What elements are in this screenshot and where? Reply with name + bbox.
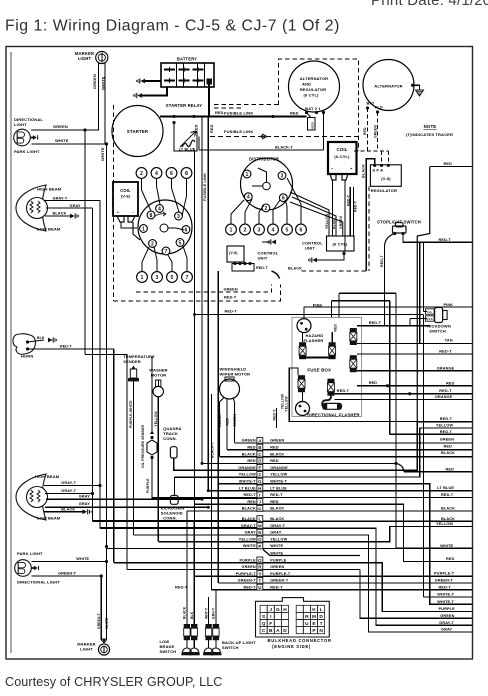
svg-text:LT BLUE: LT BLUE: [179, 148, 196, 152]
svg-text:YELLOW: YELLOW: [325, 213, 329, 229]
svg-text:1: 1: [230, 227, 233, 233]
wire pink from hazard flasher: [304, 307, 473, 319]
svg-text:WHITE: WHITE: [76, 557, 89, 561]
svg-text:RED-T: RED-T: [439, 585, 452, 589]
svg-text:YELLOW: YELLOW: [280, 393, 284, 409]
svg-text:YELLOW: YELLOW: [239, 537, 256, 541]
regulator (V-8): [370, 165, 401, 187]
svg-text:GREEN: GREEN: [224, 288, 238, 292]
wire black-t: [199, 149, 324, 151]
svg-text:RED: RED: [270, 459, 279, 463]
wire row T to border: [360, 582, 473, 584]
wire red-t right mid: [357, 353, 473, 355]
svg-text:T: T: [320, 621, 323, 627]
svg-text:WHITE: WHITE: [100, 76, 105, 90]
svg-text:RED-T: RED-T: [354, 200, 358, 212]
svg-text:PURPLE-WHITE: PURPLE-WHITE: [129, 400, 133, 428]
coil C2 (6-cyl): [328, 142, 357, 174]
wire red-t pair to control unit: [349, 187, 351, 236]
svg-text:N: N: [258, 530, 261, 535]
svg-text:G: G: [258, 479, 262, 484]
wire green jog to row R: [85, 355, 127, 570]
kickdown solenoid conn: [170, 496, 178, 505]
wire gray-t lamp2 b: [45, 493, 93, 495]
control unit V8 terminals: [232, 264, 254, 272]
wire purple-white: [133, 380, 135, 535]
svg-text:3: 3: [177, 214, 180, 220]
wire red relay drop 2: [207, 117, 209, 491]
svg-text:NOTE: NOTE: [424, 124, 437, 129]
svg-text:6: 6: [282, 196, 285, 202]
wire red to kickdown: [410, 318, 427, 320]
wire black hook: [272, 271, 280, 279]
wire row E jog up orange: [360, 422, 417, 470]
svg-text:GREEN: GREEN: [440, 438, 454, 442]
spark plug terminals bottom (V-8): [137, 272, 148, 283]
svg-text:YELLOW: YELLOW: [285, 396, 289, 412]
wire drop x389: [389, 301, 391, 435]
svg-text:GRAY: GRAY: [79, 502, 91, 506]
wire row Q jog purple: [360, 563, 473, 612]
svg-text:6: 6: [300, 227, 303, 233]
wire gray lamp2 a: [46, 498, 202, 500]
wire row I to border: [360, 496, 473, 498]
svg-text:RED-T: RED-T: [272, 409, 276, 421]
svg-text:GRAY: GRAY: [270, 531, 282, 535]
svg-text:7: 7: [186, 275, 189, 281]
svg-text:PARK LIGHT: PARK LIGHT: [14, 149, 40, 154]
dashed box bottom right: [302, 270, 369, 272]
wire oil sender up: [151, 357, 153, 434]
wire white second: [263, 550, 360, 556]
svg-text:WHITE: WHITE: [440, 544, 453, 548]
wire yellow washer: [157, 397, 159, 542]
svg-text:(6-CYL): (6-CYL): [334, 154, 350, 159]
fuse F3: [350, 328, 357, 345]
wire red-t from fuse3 top: [357, 325, 430, 327]
svg-text:RED: RED: [226, 417, 230, 425]
svg-text:RED: RED: [210, 124, 214, 133]
hazard flasher: [297, 319, 311, 333]
wire white drop to marker: [106, 562, 108, 641]
svg-text:GRAY-T: GRAY-T: [53, 197, 68, 201]
svg-text:(6 CYL): (6 CYL): [303, 93, 319, 98]
fuse F6: [327, 379, 334, 396]
svg-text:LIGHT: LIGHT: [14, 122, 27, 127]
svg-text:GREEN-T: GREEN-T: [97, 613, 101, 629]
svg-text:RED-T: RED-T: [225, 310, 238, 314]
svg-text:PURPLE: PURPLE: [270, 558, 287, 562]
svg-text:WHT-T: WHT-T: [204, 608, 208, 619]
svg-text:BULKHEAD CONNECTOR: BULKHEAD CONNECTOR: [268, 638, 332, 643]
wire left of fusebox red-t: [276, 408, 278, 428]
svg-text:U: U: [305, 621, 309, 627]
node green junction: [83, 128, 86, 131]
flasher connector bar: [323, 403, 342, 409]
svg-text:Q: Q: [262, 621, 266, 627]
node white junction: [105, 142, 108, 145]
svg-text:YELLOW: YELLOW: [270, 473, 287, 477]
svg-text:GRAY-T: GRAY-T: [270, 524, 285, 528]
wire red with node: [357, 385, 473, 387]
svg-text:LIGHT: LIGHT: [80, 647, 93, 652]
headlamp high/low beam (upper): [16, 185, 48, 231]
svg-text:CONN.: CONN.: [163, 516, 177, 521]
svg-text:DIRECTIONAL FLASHER: DIRECTIONAL FLASHER: [307, 413, 359, 418]
svg-text:HIGH BEAM: HIGH BEAM: [35, 474, 60, 479]
svg-text:GRN-T: GRN-T: [212, 608, 216, 619]
svg-text:RED: RED: [247, 500, 256, 504]
fuse F5: [298, 375, 305, 392]
wire white-t extra: [423, 315, 425, 598]
svg-text:RED-T: RED-T: [380, 255, 384, 267]
svg-text:K: K: [312, 607, 316, 613]
svg-text:REGULATOR: REGULATOR: [300, 87, 326, 92]
wire row B to border: [360, 449, 473, 451]
svg-text:4: 4: [272, 227, 275, 233]
alternator and regulator (6 cyl): [289, 61, 340, 112]
svg-text:D: D: [319, 614, 323, 620]
svg-text:GREEN: GREEN: [242, 439, 256, 443]
svg-text:8: 8: [150, 213, 153, 219]
wire stoplight left red-t: [385, 234, 395, 247]
svg-text:F: F: [269, 621, 272, 627]
svg-text:RED: RED: [426, 317, 433, 321]
svg-text:UNIT: UNIT: [258, 256, 268, 261]
svg-text:BLACK: BLACK: [61, 508, 75, 512]
svg-text:ALTERNATOR: ALTERNATOR: [374, 84, 402, 89]
wire green top right: [339, 292, 396, 294]
svg-text:L: L: [320, 607, 323, 613]
svg-text:4: 4: [247, 195, 250, 201]
svg-text:RED-T: RED-T: [243, 586, 256, 590]
directional light (top left): [14, 129, 38, 146]
wire gray-t lamp2 a: [44, 485, 100, 487]
svg-text:RED-T: RED-T: [439, 238, 452, 242]
alternator ground: [411, 84, 414, 87]
svg-text:Print Date: 4/1/2011: Print Date: 4/1/2011: [371, 0, 488, 9]
svg-text:A: A: [276, 628, 280, 634]
wire row A to border: [360, 442, 473, 444]
svg-text:+: +: [117, 211, 119, 215]
svg-text:LOW BEAM: LOW BEAM: [37, 227, 61, 232]
svg-text:(6 CYL): (6 CYL): [332, 242, 348, 247]
svg-text:−: −: [132, 211, 134, 215]
wire coil V8 to distributor: [121, 222, 137, 228]
distributor V8 cap towers: [156, 205, 164, 213]
svg-text:BATTERY: BATTERY: [177, 57, 197, 62]
distributor (6 cyl): [241, 158, 293, 210]
svg-text:SWITCH: SWITCH: [429, 329, 446, 334]
wire red-t mid long: [195, 314, 424, 316]
svg-text:STARTER RELAY: STARTER RELAY: [166, 103, 202, 108]
svg-text:GREEN-T: GREEN-T: [435, 579, 454, 583]
wire red-t lower: [335, 393, 473, 395]
plug wires 6cyl: [231, 200, 244, 224]
directional flasher: [296, 402, 310, 416]
fuse F2: [329, 342, 336, 359]
svg-text:GRAY: GRAY: [70, 204, 82, 208]
spark plug terminals top (V-8): [136, 168, 147, 179]
wire row H to border: [360, 490, 473, 492]
wire red-t flasher drop: [302, 392, 304, 402]
svg-text:REGULATOR: REGULATOR: [371, 188, 397, 193]
svg-text:PURPLE: PURPLE: [146, 478, 150, 493]
wire green-t park light: [32, 575, 102, 577]
svg-text:BLACK: BLACK: [441, 507, 455, 511]
svg-text:RED-T: RED-T: [346, 194, 350, 206]
wire bat dashed down: [367, 108, 369, 151]
svg-text:1: 1: [141, 275, 144, 281]
svg-text:RED-T: RED-T: [60, 345, 72, 349]
wire kickdown conn to row F: [174, 478, 257, 496]
headlamp high/low beam (lower): [16, 474, 48, 520]
dashed link top pair: [214, 104, 279, 106]
svg-text:E: E: [258, 466, 261, 471]
svg-text:RED-T: RED-T: [369, 321, 382, 325]
svg-text:COIL: COIL: [336, 147, 347, 152]
svg-text:RED-T: RED-T: [243, 493, 256, 497]
svg-text:FUSE BOX: FUSE BOX: [307, 367, 331, 372]
dashed box right: [368, 187, 370, 272]
svg-text:1: 1: [142, 226, 145, 232]
wire branch t1: [423, 242, 425, 311]
svg-text:OIL PRESSURE SENDER: OIL PRESSURE SENDER: [141, 424, 145, 468]
svg-text:BLACK: BLACK: [270, 452, 284, 456]
wire gray vertical: [92, 208, 94, 494]
svg-text:1: 1: [246, 172, 249, 178]
wire branch t2: [419, 242, 421, 343]
svg-text:4: 4: [158, 206, 161, 212]
svg-text:WHITE: WHITE: [270, 551, 283, 555]
wire row U to border: [360, 589, 473, 591]
wire red-t horn: [28, 348, 114, 350]
wire row D jog to red: [360, 462, 396, 464]
wire fld dashed down: [377, 112, 379, 151]
wire row C to border: [360, 456, 473, 458]
svg-text:WHITE: WHITE: [105, 617, 109, 629]
svg-text:BLACK: BLACK: [441, 451, 455, 455]
svg-text:RED: RED: [311, 121, 315, 128]
svg-text:GRAY-T: GRAY-T: [61, 481, 76, 485]
svg-text:RED: RED: [446, 467, 455, 471]
marker light (bottom): [102, 639, 106, 643]
svg-text:WHITE-T: WHITE-T: [437, 600, 454, 604]
wire lamp2 drop to row L: [93, 494, 258, 521]
svg-text:GREEN-T: GREEN-T: [238, 579, 257, 583]
wire red-t stub: [417, 421, 472, 423]
6cyl rotor lead: [258, 168, 267, 182]
svg-text:G: G: [276, 607, 280, 613]
svg-text:PURPLE: PURPLE: [239, 558, 256, 562]
wire row R jog green: [360, 569, 473, 618]
svg-text:RED: RED: [247, 446, 256, 450]
svg-text:B: B: [258, 445, 261, 450]
svg-text:GRAY: GRAY: [79, 495, 91, 499]
fusible link wire (dashed): [210, 136, 359, 138]
wire red-t top right: [332, 300, 390, 302]
wire green from marker light: [31, 63, 99, 130]
svg-text:PARK LIGHT: PARK LIGHT: [17, 551, 43, 556]
horn: [13, 334, 35, 355]
svg-text:RED-T: RED-T: [337, 389, 350, 393]
svg-text:CONN.: CONN.: [163, 436, 177, 441]
svg-text:SENDER: SENDER: [123, 359, 141, 364]
svg-text:PINK: PINK: [313, 303, 323, 307]
svg-text:RED: RED: [194, 124, 198, 133]
wire row J jog down red: [360, 504, 473, 561]
svg-text:O: O: [258, 537, 262, 542]
wires yellow blue green to control unit: [290, 192, 329, 236]
svg-text:RED: RED: [270, 500, 279, 504]
wire red feed top right: [430, 166, 473, 168]
wire green-t drop to marker: [100, 576, 102, 640]
wire row S to border: [360, 575, 473, 577]
wires from wiper motor: [220, 398, 225, 457]
wire green drop: [84, 130, 86, 355]
svg-text:3: 3: [281, 173, 284, 179]
bulkhead connector pin column A-U: [257, 437, 263, 443]
svg-text:6: 6: [170, 171, 173, 177]
wire blk horn ground: [28, 340, 45, 342]
svg-text:RED-T: RED-T: [439, 389, 452, 393]
bulkhead grid right: [296, 605, 303, 612]
dashed box bottom inner: [136, 285, 272, 293]
svg-text:STARTER: STARTER: [127, 129, 149, 134]
svg-text:GREEN: GREEN: [233, 413, 237, 426]
svg-text:ORANGE: ORANGE: [270, 466, 288, 470]
rotor lead: [168, 228, 184, 230]
control unit 6cyl ground: [342, 252, 345, 255]
wire red-t stub 2: [390, 433, 473, 435]
wire drop x396: [395, 293, 397, 548]
svg-text:BLACK: BLACK: [441, 517, 455, 521]
wire white drop: [106, 144, 108, 562]
wire accessory drop 4: [217, 271, 219, 583]
svg-text:(V-8): (V-8): [229, 251, 238, 255]
svg-text:RED-T: RED-T: [440, 417, 453, 421]
fuse box outline: [292, 317, 362, 416]
svg-text:4: 4: [155, 171, 158, 177]
svg-text:R: R: [305, 614, 309, 620]
svg-text:BAT 2 1: BAT 2 1: [305, 106, 321, 111]
svg-text:WHITE: WHITE: [100, 147, 105, 161]
svg-text:MOTOR: MOTOR: [151, 373, 167, 378]
svg-text:RED-T: RED-T: [256, 266, 268, 270]
svg-text:LT BLUE: LT BLUE: [239, 486, 256, 490]
svg-text:BLACK: BLACK: [288, 267, 302, 271]
svg-text:BLACK: BLACK: [361, 164, 365, 178]
svg-text:T: T: [258, 578, 261, 583]
fusible link red (box): [308, 118, 316, 131]
svg-text:FLD: FLD: [375, 106, 383, 110]
dashed box bottom outer: [114, 285, 281, 301]
svg-text:BLACK: BLACK: [53, 212, 67, 216]
svg-text:BLACK: BLACK: [270, 507, 284, 511]
svg-text:RED: RED: [369, 381, 378, 385]
svg-text:YELLOW: YELLOW: [436, 424, 453, 428]
wire row N jog gray: [360, 535, 473, 632]
svg-text:B: B: [269, 628, 273, 634]
fuse F4: [350, 355, 357, 372]
svg-text:3: 3: [156, 275, 159, 281]
svg-text:P: P: [258, 544, 261, 549]
svg-text:PURPLE-T: PURPLE-T: [270, 572, 291, 576]
svg-text:RED-T: RED-T: [224, 296, 237, 300]
svg-text:C: C: [262, 628, 266, 634]
svg-text:PURPLE: PURPLE: [439, 607, 456, 611]
svg-text:AND: AND: [302, 82, 311, 87]
svg-text:Courtesy of CHRYSLER GROUP, LL: Courtesy of CHRYSLER GROUP, LLC: [5, 675, 223, 689]
svg-text:5: 5: [179, 240, 182, 246]
wire yel to kickdown: [424, 311, 428, 313]
svg-text:COIL: COIL: [120, 188, 131, 193]
svg-text:WHITE: WHITE: [243, 544, 256, 548]
svg-text:GREEN: GREEN: [373, 125, 377, 138]
wire coil6 pos drop: [344, 180, 346, 251]
svg-text:GREEN: GREEN: [92, 74, 97, 89]
svg-text:WHITE: WHITE: [55, 138, 69, 143]
wire white park light: [32, 561, 107, 563]
svg-text:GRAY-T: GRAY-T: [241, 524, 256, 528]
dashed box top: [279, 59, 359, 151]
distributor 6cyl cap towers: [243, 170, 251, 178]
svg-text:FUSIBLE LINK: FUSIBLE LINK: [224, 129, 253, 134]
svg-text:(ENGINE SIDE): (ENGINE SIDE): [272, 644, 311, 649]
battery: [161, 63, 214, 87]
svg-text:ORANGE: ORANGE: [437, 366, 455, 370]
svg-text:(T)INDICATES TRACER: (T)INDICATES TRACER: [406, 132, 453, 137]
wire row O jog yellow: [360, 527, 473, 542]
wire row M jog gray-t: [360, 528, 473, 625]
svg-text:ALTERNATOR: ALTERNATOR: [300, 76, 328, 81]
svg-text:WHITE-T: WHITE-T: [270, 480, 287, 484]
svg-text:WHITE-T: WHITE-T: [437, 593, 454, 597]
svg-text:FUSIBLE LINK: FUSIBLE LINK: [224, 111, 253, 116]
svg-text:D: D: [258, 459, 261, 464]
wire red fusible link to alternator: [209, 116, 307, 118]
spark terminals bottom (6 cyl): [226, 224, 237, 235]
svg-text:S: S: [258, 572, 261, 577]
wire horn drop: [113, 349, 115, 563]
svg-text:N: N: [319, 628, 323, 634]
svg-text:GRAY-T: GRAY-T: [61, 489, 76, 493]
svg-text:SWITCH: SWITCH: [160, 649, 177, 654]
control unit (V-8): [227, 246, 244, 262]
ground lead battery upper: [145, 80, 161, 82]
svg-text:DISTRIBUTOR: DISTRIBUTOR: [249, 157, 279, 162]
wire gray lamp2 b: [45, 506, 208, 508]
svg-text:BLACK: BLACK: [242, 517, 256, 521]
starter motor: [112, 106, 163, 157]
bulkhead connector (engine side): [256, 598, 330, 637]
svg-text:FUSIBLE LINK: FUSIBLE LINK: [203, 173, 207, 201]
svg-text:SWITCH: SWITCH: [222, 645, 239, 650]
marker light (top): [96, 51, 108, 63]
svg-text:BLACK: BLACK: [270, 517, 284, 521]
svg-text:RED-T: RED-T: [441, 493, 454, 497]
wire yellow stub: [360, 428, 473, 477]
svg-text:BLACK: BLACK: [242, 507, 256, 511]
svg-text:BAT: BAT: [367, 102, 376, 106]
svg-text:RED: RED: [444, 444, 453, 448]
svg-text:U: U: [258, 585, 261, 590]
wire gray lamp1: [46, 207, 93, 209]
wire stoplight right red-t to border: [403, 234, 473, 243]
svg-text:5: 5: [286, 227, 289, 233]
wire row P white: [360, 548, 396, 550]
wire row L to border: [360, 520, 473, 522]
